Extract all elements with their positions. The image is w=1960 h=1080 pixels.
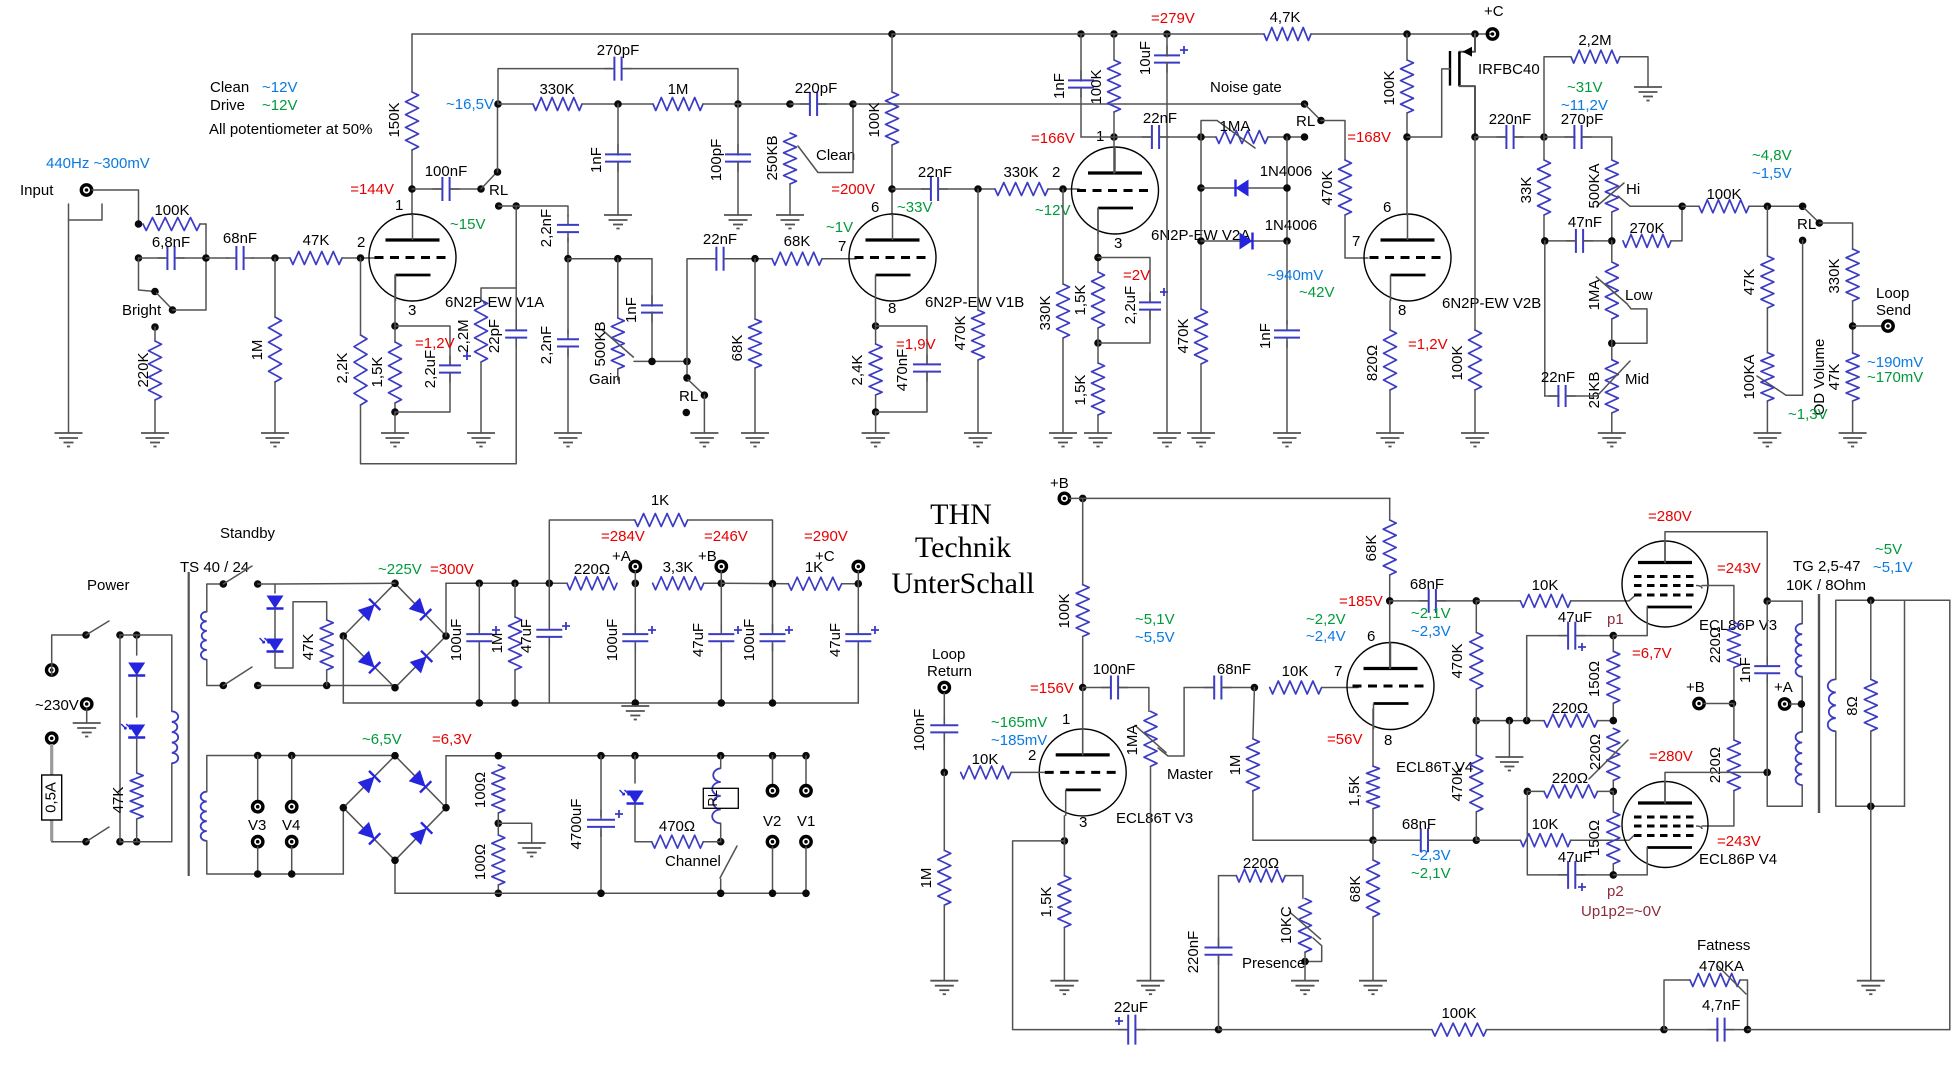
svg-text:1nF: 1nF [588, 147, 605, 173]
plus 4700uF [615, 810, 623, 818]
wire +C stub [857, 571, 859, 584]
svg-text:Clean: Clean [816, 147, 855, 164]
svg-text:RL: RL [1296, 113, 1315, 130]
wire presence wiper [1305, 938, 1322, 962]
wire 68K v4 bottom [1389, 575, 1391, 601]
svg-text:68nF: 68nF [223, 230, 257, 247]
node surge top [133, 631, 141, 639]
wire diode col right [1286, 137, 1288, 241]
wire 22nF ts col [1544, 241, 1546, 396]
wire 47K od to 100KA [1766, 308, 1768, 353]
ground 1,5K b [1084, 432, 1112, 434]
potentiometer 500KB Gain [611, 318, 624, 369]
svg-text:6N2P-EW V2B: 6N2P-EW V2B [1442, 295, 1541, 312]
wire 100K v3 bottom [1082, 637, 1084, 688]
wire pent1 plate lead [1665, 532, 1767, 601]
svg-text:7: 7 [1352, 233, 1360, 250]
wire +B to 1K2 [721, 582, 788, 584]
resistor 1,5K V2A b [1092, 363, 1105, 415]
wire 100nF rtn bottom [943, 733, 945, 772]
svg-text:2: 2 [1028, 747, 1036, 764]
wire 150R lower top [1612, 791, 1614, 812]
node V1 top tap [802, 752, 810, 760]
wire 1nF to wiper node [651, 312, 653, 361]
wire hv bottom [207, 660, 224, 686]
svg-text:~15V: ~15V [450, 216, 485, 233]
svg-text:220Ω: 220Ω [1552, 700, 1588, 717]
node V2 top tap [769, 752, 777, 760]
svg-text:22uF: 22uF [1114, 999, 1148, 1016]
wire V4 top stub [291, 756, 293, 802]
svg-text:Technik: Technik [915, 531, 1011, 564]
resistor 47K send [1846, 353, 1859, 401]
wire 330K leak top [1062, 189, 1064, 284]
svg-text:8: 8 [1384, 732, 1392, 749]
wire RL2 to ground [703, 395, 705, 433]
ground 470K mid [964, 432, 992, 434]
svg-text:470K: 470K [1449, 643, 1466, 678]
svg-text:~2,1V: ~2,1V [1411, 865, 1451, 882]
wire 270pF bypass right [624, 69, 738, 104]
ground mains [73, 722, 101, 724]
node V1A grid [357, 254, 365, 262]
wire 22pF top to RL [515, 206, 517, 330]
wire 68K shunt top [754, 259, 756, 319]
svg-text:500KB: 500KB [592, 321, 609, 366]
svg-text:~5,1V: ~5,1V [1873, 559, 1913, 576]
svg-text:1nF: 1nF [1051, 73, 1068, 99]
svg-text:68K: 68K [1363, 535, 1380, 562]
wire RL4 open to od vol wiper [1786, 240, 1803, 395]
node 470K top mid [974, 185, 982, 193]
wire 4700uF top lead [600, 756, 602, 816]
svg-text:1nF: 1nF [1257, 323, 1274, 349]
wire V3 bottom stub [257, 847, 259, 874]
wire fb row b [1487, 1029, 1665, 1031]
svg-text:100K: 100K [866, 102, 883, 137]
switch RL4 arm [1804, 208, 1818, 222]
wire 68nF v3 right [1222, 687, 1255, 689]
node p1 [1610, 632, 1618, 640]
wire led top [634, 756, 636, 783]
svg-text:10KC: 10KC [1278, 906, 1295, 944]
svg-text:~2,1V: ~2,1V [1411, 605, 1451, 622]
wire diode row2 [1201, 240, 1287, 242]
resistor 10K V4 grid [1270, 681, 1322, 694]
wire 10K to v4 grid [1322, 687, 1358, 689]
node diode row2 left [1197, 237, 1205, 245]
svg-text:10K: 10K [1532, 577, 1559, 594]
svg-text:=1,2V: =1,2V [415, 335, 455, 352]
svg-text:Bright: Bright [122, 302, 162, 319]
svg-text:~12V: ~12V [1035, 202, 1070, 219]
svg-text:=156V: =156V [1030, 680, 1074, 697]
capacitor 270pF clean [604, 68, 631, 70]
wire master pot bottom [1150, 766, 1152, 980]
capacitor 22nF ts [1548, 395, 1575, 397]
switch Standby arm b [223, 667, 252, 686]
svg-text:100nF: 100nF [1093, 661, 1136, 678]
ground V1B cathode [862, 432, 890, 434]
terminal V4 heater a [287, 802, 297, 812]
svg-text:=1,9V: =1,9V [896, 336, 936, 353]
node bridge1 bottom [391, 684, 399, 692]
resistor 4,7K [1264, 28, 1311, 41]
node 1K2 left [769, 580, 777, 588]
svg-text:+B: +B [698, 548, 717, 565]
node V2B plate [1403, 133, 1411, 141]
resistor 33K [1538, 160, 1551, 215]
wire snubber bottom [1766, 676, 1768, 772]
node RL3 arm end [1317, 117, 1325, 125]
wire bright lower to right node [173, 309, 207, 311]
svg-text:10K: 10K [1282, 663, 1309, 680]
resistor 1M psu [509, 617, 522, 670]
capacitor 10uF electrolytic [1166, 45, 1168, 72]
resistor 1M V4 leak [1246, 739, 1259, 791]
capacitor 270pF od [1564, 136, 1591, 138]
terminal +B screens [1694, 698, 1704, 708]
wire V2A cathode [1097, 208, 1099, 272]
svg-text:=56V: =56V [1327, 731, 1362, 748]
resistor 220K [149, 341, 162, 400]
svg-text:Presence: Presence [1242, 955, 1305, 972]
wire sec top [1836, 600, 1950, 679]
wire 22nF ts right [1566, 395, 1597, 397]
wire 1MA low col [1611, 241, 1613, 262]
terminal Loop Return [939, 682, 949, 692]
node OT center tap [1798, 700, 1806, 708]
node mosfet source [1471, 133, 1479, 141]
diode LED heater [627, 791, 644, 804]
OT primary coil lower [1796, 732, 1803, 785]
wire 1K psu a right [688, 520, 773, 584]
wire 1K2 right [842, 583, 859, 585]
wire 220R pi upper right [1598, 720, 1614, 722]
svg-text:4,7nF: 4,7nF [1702, 997, 1740, 1014]
node drive wire [512, 202, 520, 210]
svg-text:~225V: ~225V [378, 561, 422, 578]
wire 1M v3 bottom [943, 905, 945, 981]
node RL coil bottom [717, 838, 725, 846]
resistor 470K pi upper [1470, 632, 1483, 689]
svg-text:10K: 10K [1532, 816, 1559, 833]
svg-text:470K: 470K [1449, 766, 1466, 801]
wire 47uF1 to p1 [1576, 635, 1613, 637]
svg-text:100K: 100K [1088, 69, 1105, 104]
wire bottom to xfmr [120, 763, 172, 842]
svg-text:10K: 10K [972, 751, 999, 768]
transistor IRFBC40 MOSFET Q1 [1459, 34, 1475, 52]
node RL coil top [717, 752, 725, 760]
node V2A plate [1110, 133, 1118, 141]
node 100K left [135, 220, 143, 228]
wire presence right [1285, 876, 1303, 899]
node RL2 open contact [683, 409, 691, 417]
svg-text:47uF: 47uF [690, 623, 707, 657]
svg-text:0,5A: 0,5A [42, 782, 59, 813]
capacitor 6,8nF [157, 257, 184, 259]
wire 8R bottom [1870, 731, 1872, 806]
node +C psu [855, 580, 863, 588]
svg-text:p1: p1 [1607, 611, 1624, 628]
resistor 220R pi upper [1544, 714, 1598, 727]
svg-text:=284V: =284V [601, 528, 645, 545]
svg-text:~165mV: ~165mV [991, 714, 1047, 731]
wire fb row a [1219, 1029, 1432, 1031]
svg-text:3,3K: 3,3K [663, 559, 694, 576]
node bridge1 right [442, 632, 450, 640]
wire RL3 to 470K [1321, 121, 1345, 161]
resistor 100K od mix [1699, 200, 1749, 213]
node V1B cathode [872, 322, 880, 330]
terminal +B psu [716, 561, 726, 571]
plus 47uF b [734, 626, 742, 634]
capacitor 68nF V3 [1204, 687, 1231, 689]
plus 10uF [1180, 46, 1188, 54]
wire sec right side [1904, 600, 1906, 806]
capacitor 68nF input [226, 257, 253, 259]
wire pent2 plate lead [1665, 772, 1767, 803]
wire fb row c [1748, 1029, 1950, 1031]
node led top [631, 752, 639, 760]
wire 68nF v4 bottom right [1428, 839, 1476, 841]
svg-text:RL: RL [1797, 216, 1816, 233]
svg-text:~5V: ~5V [1875, 541, 1902, 558]
svg-text:10K / 8Ohm: 10K / 8Ohm [1786, 577, 1866, 594]
node V3 top tap [254, 752, 262, 760]
wire source to 220nF [1475, 136, 1506, 138]
resistor 68K V4 cathode [1367, 860, 1380, 917]
wire mid gnd [1611, 413, 1613, 433]
wire mid to 1nF [651, 259, 653, 306]
potentiometer 1MA Low [1605, 262, 1618, 319]
svg-text:6,8nF: 6,8nF [152, 234, 190, 251]
node standby c [220, 682, 228, 690]
wire 68K v4c gnd [1372, 917, 1374, 981]
wire heater gnd rail [395, 892, 806, 894]
wire pent1 screen [1702, 586, 1734, 623]
node 6.8nF left [135, 254, 143, 262]
wire 470K to grid [1345, 215, 1368, 258]
wire 47uF1 riser [1527, 636, 1568, 721]
capacitor 220nF od [1496, 136, 1523, 138]
plus 2,2uF V1A [463, 352, 471, 360]
terminal V1 heater b [801, 837, 811, 847]
wire 1nF noise bottom [1080, 88, 1082, 137]
wire 100K V2B bottom [1406, 113, 1408, 215]
svg-text:1MA: 1MA [1220, 118, 1251, 135]
resistor 820R cathode [1384, 330, 1397, 390]
node diode rail top [1283, 133, 1291, 141]
svg-text:100nF: 100nF [911, 709, 928, 752]
wire 1,5K b ground [1097, 415, 1099, 433]
wire +B stub amp [1070, 497, 1083, 499]
terminal V4 heater b [287, 837, 297, 847]
resistor 2,2K grid V1A [354, 335, 367, 405]
node 47K bleed bottom [323, 682, 331, 690]
svg-text:47K: 47K [110, 787, 127, 814]
node gnd rail a [476, 699, 484, 707]
wire 1,5K to bottom node [394, 403, 396, 412]
terminal +A ot [1779, 699, 1789, 709]
wire 100K source gnd [1474, 390, 1476, 433]
ground 1nF ng2 [1273, 432, 1301, 434]
wire 1nF ng2 gnd [1286, 341, 1288, 433]
node 100R top [495, 752, 503, 760]
node RL4 arm end [1816, 219, 1824, 227]
node sec bottom tap [1867, 803, 1875, 811]
wire left branch to bright [139, 258, 156, 292]
wire 47K send gnd [1852, 401, 1854, 433]
svg-text:470KA: 470KA [1699, 958, 1744, 975]
svg-text:33K: 33K [1518, 177, 1535, 204]
wire surge mid1 [136, 676, 138, 717]
svg-text:2,2nF: 2,2nF [538, 209, 555, 247]
svg-text:100K: 100K [1441, 1005, 1476, 1022]
node 47nF right [1608, 237, 1616, 245]
ground 1M V3 [930, 980, 958, 982]
terminal V2 heater b [767, 837, 777, 847]
wire B+ rail top left [412, 33, 892, 35]
wire hum pot bottom [1612, 780, 1614, 791]
pentode ECL86P V4 [1622, 782, 1708, 868]
node fatness left [1660, 1026, 1668, 1034]
capacitor 1nF noise [1080, 70, 1082, 97]
svg-text:~2,4V: ~2,4V [1306, 628, 1346, 645]
wire 470K noise gnd [1200, 364, 1202, 433]
wire 100R b down [497, 885, 499, 893]
svg-text:68K: 68K [1347, 876, 1364, 903]
svg-text:IRFBC40: IRFBC40 [1478, 61, 1540, 78]
terminal +C psu [853, 561, 863, 571]
node 100R mid [495, 820, 503, 828]
node V4 plate [1386, 597, 1394, 605]
svg-text:500KA: 500KA [1586, 163, 1603, 208]
svg-text:1,5K: 1,5K [1038, 887, 1055, 918]
wire 470K pi upper top [1475, 601, 1477, 633]
wire 150R upper top [1612, 636, 1614, 652]
svg-text:47uF: 47uF [1558, 609, 1592, 626]
potentiometer 250KB Clean body [784, 133, 797, 184]
wire 2,2nF b to ground [567, 350, 569, 433]
svg-text:1M: 1M [489, 633, 506, 654]
svg-text:1,5K: 1,5K [1346, 776, 1363, 807]
transformer heater secondary coil [201, 792, 207, 841]
triode V1B 6N2P-EW [849, 214, 936, 301]
wire cap1 bottom [478, 644, 480, 703]
wire heater ct gnd [498, 823, 531, 843]
svg-text:=300V: =300V [430, 561, 474, 578]
wire 820R gnd [1389, 390, 1391, 433]
svg-text:~2,3V: ~2,3V [1411, 623, 1451, 640]
svg-text:1N4006: 1N4006 [1260, 163, 1313, 180]
resistor 1K psu b [788, 577, 841, 590]
svg-text:~16,5V: ~16,5V [446, 96, 494, 113]
svg-text:250KB: 250KB [764, 135, 781, 180]
node rail 1nF [1077, 30, 1085, 38]
wire v4 plate lead [1389, 601, 1391, 669]
wire hv diode mid [274, 609, 276, 638]
node bright upper [151, 288, 159, 296]
wire parallel right side [205, 224, 207, 310]
wire fatness right stub [1740, 980, 1748, 1030]
wire v3 cathode to 22uF [1013, 841, 1128, 1030]
svg-text:1M: 1M [668, 81, 689, 98]
resistor 470R [652, 835, 704, 848]
wire 47uF a leads [548, 583, 550, 627]
wire standby top to bridge [275, 582, 395, 585]
svg-text:68K: 68K [729, 335, 746, 362]
node V1B plate [888, 185, 896, 193]
node gnd rail c [632, 699, 640, 707]
svg-text:~6,5V: ~6,5V [362, 731, 402, 748]
capacitor 47uF a electrolytic [548, 620, 550, 647]
svg-text:~2,2V: ~2,2V [1306, 611, 1346, 628]
wire 4,7nF right lead [1724, 1029, 1748, 1031]
wire 2,2uF V2A bottom [1098, 310, 1150, 343]
wire clean rail to noise gate [853, 103, 1305, 105]
resistor 220R presence [1236, 869, 1285, 882]
svg-text:~230V: ~230V [35, 697, 79, 714]
wire led to 470R [635, 804, 652, 842]
wire v4 cathode lead [1372, 709, 1374, 766]
svg-text:6: 6 [871, 199, 879, 216]
diode bridge1 nw [358, 599, 381, 622]
wire bridge1 left down [342, 636, 344, 703]
wire wiper node up to 22nF [687, 259, 716, 362]
svg-text:Return: Return [927, 663, 972, 680]
capacitor 47uF pi lower electrolytic [1558, 874, 1585, 876]
wire standby top out [258, 584, 275, 593]
node p2 [1610, 871, 1618, 879]
wire v3 plate lead [1082, 688, 1084, 755]
wire 150R lower bottom [1612, 864, 1614, 875]
wire 33K top [1543, 137, 1545, 160]
resistor 100K V3 plate [1076, 585, 1089, 637]
svg-text:~12V: ~12V [262, 79, 297, 96]
svg-text:Up1p2=~0V: Up1p2=~0V [1581, 903, 1661, 920]
wire 100K ng bottom [1113, 112, 1115, 137]
pentode ECL86P V3 [1622, 541, 1708, 627]
svg-text:220Ω: 220Ω [1552, 770, 1588, 787]
diode bridge2 se [410, 822, 433, 845]
svg-text:=185V: =185V [1339, 593, 1383, 610]
wire plate to 22nF ng [1114, 136, 1152, 138]
wire 47nF lead2 [1584, 240, 1608, 242]
svg-text:220Ω: 220Ω [1243, 855, 1279, 872]
svg-text:1,5K: 1,5K [369, 357, 386, 388]
transformer core [188, 572, 190, 876]
wire 68K v4c top [1372, 840, 1374, 860]
svg-text:100Ω: 100Ω [472, 772, 489, 808]
capacitor 100nF V3 out [1101, 687, 1128, 689]
svg-text:440Hz ~300mV: 440Hz ~300mV [46, 155, 150, 172]
wire bridge2 dc plus [445, 756, 447, 808]
node 1M top [271, 254, 279, 262]
node channel bottom [717, 890, 725, 898]
wire 1M to ground [274, 382, 276, 433]
wire top to xfmr [120, 635, 172, 711]
svg-text:Clean: Clean [210, 79, 249, 96]
svg-text:8Ω: 8Ω [1844, 696, 1861, 716]
wire L to switch [52, 635, 86, 665]
resistor 470K pi lower [1470, 755, 1483, 812]
node OT top plate [1763, 597, 1771, 605]
wire 220nF to tone [1514, 136, 1544, 138]
resistor 10K upper grid [1520, 594, 1570, 607]
node heater gnd rail a [495, 890, 503, 898]
